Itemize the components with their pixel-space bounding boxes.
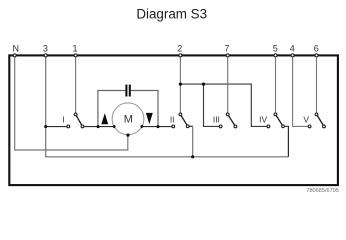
svg-text:M: M	[124, 113, 133, 125]
switch II fixed contact	[172, 125, 175, 128]
wire terminal 6 vertical	[316, 56, 318, 114]
terminal 4	[291, 54, 294, 57]
svg-text:6: 6	[314, 44, 319, 54]
svg-text:III: III	[213, 114, 220, 124]
terminal 5	[274, 54, 277, 57]
switch III blade	[228, 114, 236, 126]
junction node motor right pin	[140, 125, 143, 128]
svg-text:Diagram S3: Diagram S3	[136, 6, 207, 21]
terminal 3	[44, 54, 47, 57]
switch V fixed contact	[308, 125, 311, 128]
triangle up (direction arrow)	[101, 113, 108, 124]
svg-text:2: 2	[177, 44, 182, 54]
capacitor loop wires	[98, 91, 125, 127]
switch V blade	[317, 114, 325, 126]
svg-text:3: 3	[43, 44, 48, 54]
junction node motor left pin	[113, 125, 116, 128]
svg-text:5: 5	[273, 44, 278, 54]
wire motor right to switch II contact	[142, 126, 172, 128]
switch III fixed contact	[219, 125, 222, 128]
terminal 1	[74, 54, 77, 57]
switch I blade	[76, 114, 83, 126]
svg-text:I: I	[62, 114, 64, 124]
terminal 6	[315, 54, 318, 57]
wire terminal 1 vertical	[75, 56, 77, 114]
svg-text:II: II	[170, 114, 175, 124]
svg-text:IV: IV	[259, 114, 267, 124]
wire switch I feed from bus 3	[46, 126, 67, 128]
switch I fixed contact	[67, 125, 70, 128]
wire terminal 7 vertical	[227, 56, 229, 114]
wire switch III feed from rail	[204, 84, 220, 126]
svg-text:N: N	[13, 44, 20, 54]
wire terminal N vertical + N bus to motor bottom	[15, 56, 128, 150]
svg-text:780685/6795: 780685/6795	[306, 188, 339, 194]
svg-text:V: V	[303, 114, 309, 124]
wire switch II blade drop to bus 3	[192, 126, 194, 157]
wire terminal 5 vertical	[275, 56, 277, 114]
junction node capacitor right	[156, 125, 159, 128]
wire terminal 2 vertical	[179, 56, 181, 114]
svg-text:4: 4	[290, 44, 295, 54]
capacitor C plates	[125, 85, 127, 97]
svg-text:1: 1	[72, 44, 77, 54]
enclosure box	[9, 55, 338, 185]
switch IV fixed contact	[267, 125, 270, 128]
wire rail from node 2 to switch IV feed	[180, 84, 266, 126]
terminal 2	[179, 54, 182, 57]
wire switch II blade exit	[189, 125, 193, 127]
svg-text:7: 7	[224, 44, 229, 54]
motor M circle	[112, 103, 144, 135]
junction node switch II drop on bus 3	[191, 155, 194, 158]
wire terminal 4 vertical + switch V feed	[293, 56, 308, 126]
switch IV blade	[276, 114, 284, 126]
wire terminal 3 vertical + bus 3	[46, 56, 289, 156]
wire bus 3 riser to switch IV blade	[285, 126, 289, 157]
junction node on bus 3 at switch I	[44, 125, 47, 128]
wire switch I blade to motor left	[84, 126, 114, 128]
junction node capacitor left	[97, 125, 100, 128]
switch II blade	[180, 114, 187, 126]
junction node rail at switch III feed	[202, 83, 205, 86]
junction node rail at terminal 2	[179, 83, 182, 86]
terminal N	[13, 54, 16, 57]
junction node motor bottom pin	[126, 134, 129, 137]
terminal 7	[226, 54, 229, 57]
triangle down (direction arrow)	[146, 113, 153, 124]
